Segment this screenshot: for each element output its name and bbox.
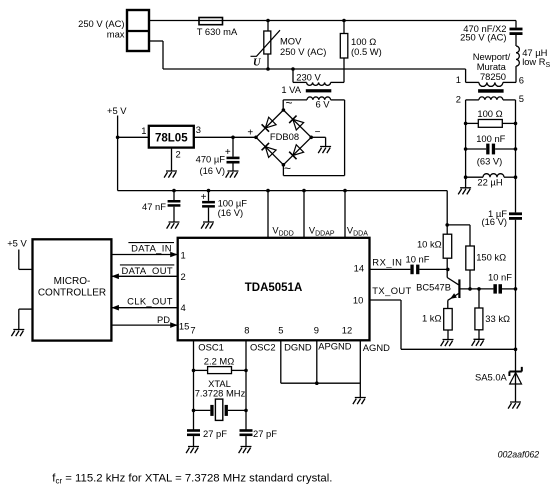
svg-text:002aaf062: 002aaf062 — [498, 449, 540, 459]
svg-text:2: 2 — [456, 93, 461, 104]
svg-text:27 pF: 27 pF — [253, 428, 277, 439]
svg-text:1 kΩ: 1 kΩ — [422, 313, 442, 324]
svg-text:+: + — [201, 192, 207, 203]
svg-text:78L05: 78L05 — [155, 132, 188, 144]
svg-text:TX_OUT: TX_OUT — [372, 285, 411, 296]
svg-text:CLK_OUT: CLK_OUT — [127, 296, 173, 307]
svg-text:PD: PD — [157, 314, 170, 325]
svg-text:2: 2 — [181, 271, 186, 282]
svg-text:47 nF: 47 nF — [142, 201, 166, 212]
svg-text:1: 1 — [456, 74, 461, 85]
svg-text:33 kΩ: 33 kΩ — [485, 313, 510, 324]
svg-text:~: ~ — [285, 96, 292, 110]
svg-text:(16 V): (16 V) — [481, 216, 507, 227]
svg-text:150 kΩ: 150 kΩ — [476, 251, 506, 262]
svg-text:CONTROLLER: CONTROLLER — [38, 288, 106, 299]
svg-text:10 nF: 10 nF — [406, 254, 430, 265]
svg-text:12: 12 — [342, 325, 352, 336]
svg-text:OSC1: OSC1 — [198, 342, 224, 353]
svg-text:+: + — [225, 147, 231, 158]
svg-text:6 V: 6 V — [315, 99, 330, 110]
svg-text:100 Ω: 100 Ω — [477, 108, 502, 119]
svg-text:78250: 78250 — [480, 71, 506, 82]
svg-text:1 VA: 1 VA — [281, 84, 301, 95]
svg-text:10 kΩ: 10 kΩ — [417, 239, 442, 250]
svg-text:T 630 mA: T 630 mA — [197, 26, 238, 37]
svg-text:(0.5 W): (0.5 W) — [351, 46, 382, 57]
svg-text:BC547B: BC547B — [416, 281, 451, 292]
svg-text:9: 9 — [314, 325, 319, 336]
svg-text:100 nF: 100 nF — [476, 133, 505, 144]
svg-text:MICRO-: MICRO- — [54, 276, 91, 287]
svg-text:250 V (AC): 250 V (AC) — [280, 46, 326, 57]
svg-text:~: ~ — [284, 162, 291, 176]
svg-text:5: 5 — [519, 93, 524, 104]
svg-text:SA5.0A: SA5.0A — [475, 371, 508, 382]
svg-text:470 µF: 470 µF — [196, 154, 226, 165]
svg-text:(16 V): (16 V) — [218, 207, 244, 218]
svg-text:27 pF: 27 pF — [203, 428, 227, 439]
svg-text:230 V: 230 V — [296, 71, 321, 82]
svg-text:+5 V: +5 V — [107, 105, 127, 116]
svg-text:DATA_OUT: DATA_OUT — [121, 265, 172, 276]
svg-text:7: 7 — [190, 325, 195, 336]
svg-text:DGND: DGND — [284, 342, 312, 353]
svg-text:max: max — [107, 29, 125, 40]
svg-text:(16 V): (16 V) — [199, 165, 225, 176]
svg-text:10 nF: 10 nF — [488, 271, 512, 282]
svg-text:2: 2 — [176, 149, 181, 160]
svg-text:22 µH: 22 µH — [477, 177, 502, 188]
svg-text:7.3728 MHz: 7.3728 MHz — [195, 387, 246, 398]
svg-text:250 V (AC): 250 V (AC) — [78, 18, 124, 29]
svg-text:1: 1 — [141, 125, 146, 136]
svg-text:APGND: APGND — [318, 341, 352, 352]
svg-text:−: − — [315, 127, 321, 138]
svg-text:OSC2: OSC2 — [250, 342, 276, 353]
svg-text:10: 10 — [353, 295, 363, 306]
svg-text:AGND: AGND — [363, 342, 390, 353]
svg-text:2.2 MΩ: 2.2 MΩ — [204, 355, 234, 366]
svg-text:TDA5051A: TDA5051A — [245, 282, 303, 294]
svg-text:(63 V): (63 V) — [477, 156, 503, 167]
svg-text:DATA_IN: DATA_IN — [131, 243, 172, 254]
svg-text:1: 1 — [181, 249, 186, 260]
svg-text:+5 V: +5 V — [7, 237, 27, 248]
svg-text:14: 14 — [354, 263, 364, 274]
svg-text:8: 8 — [244, 325, 249, 336]
svg-text:5: 5 — [278, 325, 283, 336]
svg-text:FDB08: FDB08 — [270, 131, 299, 142]
svg-text:Newport/: Newport/ — [473, 51, 511, 62]
svg-text:6: 6 — [519, 75, 524, 86]
svg-text:MOV: MOV — [280, 36, 302, 47]
svg-text:15: 15 — [179, 320, 189, 331]
svg-text:RX_IN: RX_IN — [372, 256, 402, 267]
svg-text:fcr = 115.2 kHz for XTAL = 7.3: fcr = 115.2 kHz for XTAL = 7.3728 MHz st… — [52, 472, 332, 485]
svg-text:4: 4 — [181, 302, 186, 313]
svg-text:3: 3 — [196, 124, 201, 135]
svg-text:250 V (AC): 250 V (AC) — [460, 32, 506, 43]
